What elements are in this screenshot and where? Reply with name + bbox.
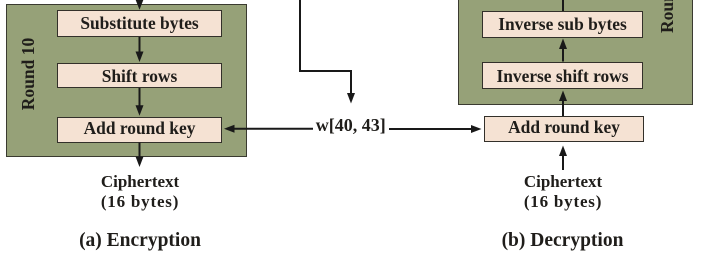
label Ciphertext (left) bbox=[78, 172, 202, 192]
box: Substitute bytes bbox=[57, 10, 222, 37]
box: Shift rows bbox=[57, 63, 222, 88]
box: Inverse sub bytes bbox=[482, 11, 643, 38]
box: Add round key (decryption) bbox=[484, 116, 644, 142]
label (16 bytes) (left) bbox=[78, 192, 202, 212]
arrowhead into Add round key (left, from w) bbox=[224, 125, 235, 133]
caption (b) Decryption bbox=[483, 230, 643, 252]
label (16 bytes) (right) bbox=[501, 192, 625, 212]
arrowhead of key schedule wire bbox=[347, 93, 355, 104]
arrowhead into Add round key (right, from Ciphertext) bbox=[559, 146, 567, 157]
arrowhead into Add round key (left) bbox=[136, 105, 144, 116]
wire key schedule elbow to w[40,43] bbox=[300, 0, 351, 93]
label Round 1 (rotated, cut off at top) bbox=[657, 0, 677, 33]
wire Shift rows to Add round key bbox=[139, 88, 141, 106]
round block box (decryption) bbox=[458, 0, 693, 105]
arrowhead into Inverse shift rows bbox=[559, 91, 567, 102]
wire w[40,43] to Add round key (right) bbox=[389, 128, 472, 130]
wire above Inverse sub bytes (cut at top) bbox=[562, 0, 564, 11]
wire w[40,43] to Add round key (left) bbox=[235, 128, 314, 130]
arrowhead into Inverse sub bytes bbox=[559, 39, 567, 50]
wire Ciphertext to Add round key (right) bbox=[562, 156, 564, 171]
label Ciphertext (right) bbox=[501, 172, 625, 192]
box: Add round key (encryption) bbox=[57, 117, 222, 143]
arrowhead into Add round key (right, from w) bbox=[471, 125, 482, 133]
wire Add round key to Ciphertext (left) bbox=[139, 143, 141, 158]
arrowhead into Ciphertext (left) bbox=[136, 157, 144, 168]
arrowhead into Shift rows bbox=[136, 52, 144, 63]
wire Inverse shift rows to Inverse sub bytes bbox=[562, 49, 564, 62]
wire Add round key to Inverse shift rows bbox=[562, 101, 564, 117]
wire Substitute bytes to Shift rows bbox=[139, 37, 141, 52]
label w[40, 43] bbox=[301, 115, 401, 136]
caption (a) Encryption bbox=[60, 230, 220, 252]
arrowhead into Substitute bytes bbox=[136, 0, 144, 10]
wire into Substitute bytes (cut at top) bbox=[139, 0, 141, 2]
label Round 10 (rotated) bbox=[18, 34, 38, 114]
box: Inverse shift rows bbox=[482, 62, 643, 90]
round-10 encryption block box bbox=[6, 4, 247, 157]
